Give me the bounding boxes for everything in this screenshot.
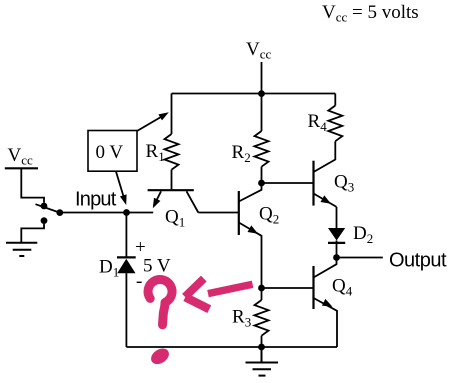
svg-text:R4: R4 xyxy=(308,111,328,134)
annotation: pink arrow shaft xyxy=(208,284,253,293)
svg-text:R3: R3 xyxy=(232,307,251,330)
svg-text:5 V: 5 V xyxy=(143,256,171,277)
annotation: pink question mark tail xyxy=(163,303,166,325)
resistor R2 xyxy=(255,131,269,167)
wire: R1 top lead xyxy=(171,94,173,135)
wire: R2 bottom lead xyxy=(261,167,263,183)
wire: R4 top lead xyxy=(334,94,336,106)
switch contact (lower) xyxy=(41,217,48,224)
node: R3 bottom xyxy=(258,344,265,351)
node: Q2 emitter / R3 top / Q4 base xyxy=(258,285,265,292)
arrow: callout to R1 lead xyxy=(137,112,169,131)
svg-text:R2: R2 xyxy=(232,142,251,165)
svg-text:Vcc: Vcc xyxy=(246,39,272,62)
wire: R3 bottom lead xyxy=(261,336,263,347)
node: R2 bottom / Q2 collector xyxy=(258,180,265,187)
power rail Vcc (left) xyxy=(5,167,38,169)
wire: Vcc stub top center xyxy=(261,62,263,94)
wire: R1 bottom lead xyxy=(171,170,173,190)
annotation: pink arrow head lower barb xyxy=(185,297,209,309)
annotation: pink arrow head upper barb xyxy=(185,279,204,297)
svg-text:D2: D2 xyxy=(353,223,373,246)
svg-text:Input: Input xyxy=(75,189,117,211)
wire: top supply rail xyxy=(172,93,336,95)
diode D2 xyxy=(328,228,345,258)
arrow: callout to input node xyxy=(116,172,127,206)
wire: D1 bottom lead xyxy=(125,273,127,347)
resistor R4 xyxy=(328,106,342,142)
svg-text:R1: R1 xyxy=(146,141,165,164)
diode D1 xyxy=(117,257,136,273)
node: input xyxy=(123,209,130,216)
svg-text:Q4: Q4 xyxy=(332,276,353,299)
wire: bottom rail xyxy=(126,346,337,348)
svg-text:Vcc = 5 volts: Vcc = 5 volts xyxy=(322,2,419,25)
annotation: pink question mark xyxy=(148,280,172,303)
wire: lower contact to ground xyxy=(21,224,44,242)
transistor Q3 xyxy=(314,141,337,207)
svg-text:Output: Output xyxy=(389,250,447,272)
callout box 0 V xyxy=(88,131,137,172)
wire: R3 top lead xyxy=(261,288,263,300)
resistor R1 xyxy=(165,134,179,170)
wire: Q1 collector to Q2 base xyxy=(198,212,239,214)
svg-text:Vcc: Vcc xyxy=(8,145,34,168)
wire: Q4 base xyxy=(262,287,314,289)
wire: D1 top lead xyxy=(125,213,127,258)
switch contact (lever end) xyxy=(56,209,63,216)
wire: D2 top lead xyxy=(336,207,338,228)
svg-text:-: - xyxy=(136,271,142,292)
svg-text:Q1: Q1 xyxy=(165,207,185,230)
node: output xyxy=(333,254,340,261)
wire: R2 top lead xyxy=(261,94,263,132)
wire: input xyxy=(60,212,154,214)
wire: Q3 base xyxy=(262,182,314,184)
resistor R3 xyxy=(255,300,269,336)
svg-text:Q3: Q3 xyxy=(334,172,354,195)
svg-text:0 V: 0 V xyxy=(96,142,124,163)
ground (center) xyxy=(246,347,279,376)
node: Vcc rail junction xyxy=(258,90,265,97)
transistor Q2 xyxy=(239,183,262,288)
transistor Q4 xyxy=(314,258,338,348)
svg-text:D1: D1 xyxy=(99,257,119,280)
svg-text:Q2: Q2 xyxy=(259,204,279,227)
ground (left) xyxy=(6,243,37,256)
wire: output xyxy=(337,257,383,259)
annotation: pink question mark dot xyxy=(148,345,172,367)
transistor Q1 xyxy=(148,190,199,212)
switch lever xyxy=(36,204,60,212)
wire: Vcc rail to switch pole xyxy=(21,168,44,203)
switch contact (pole) xyxy=(41,203,48,210)
